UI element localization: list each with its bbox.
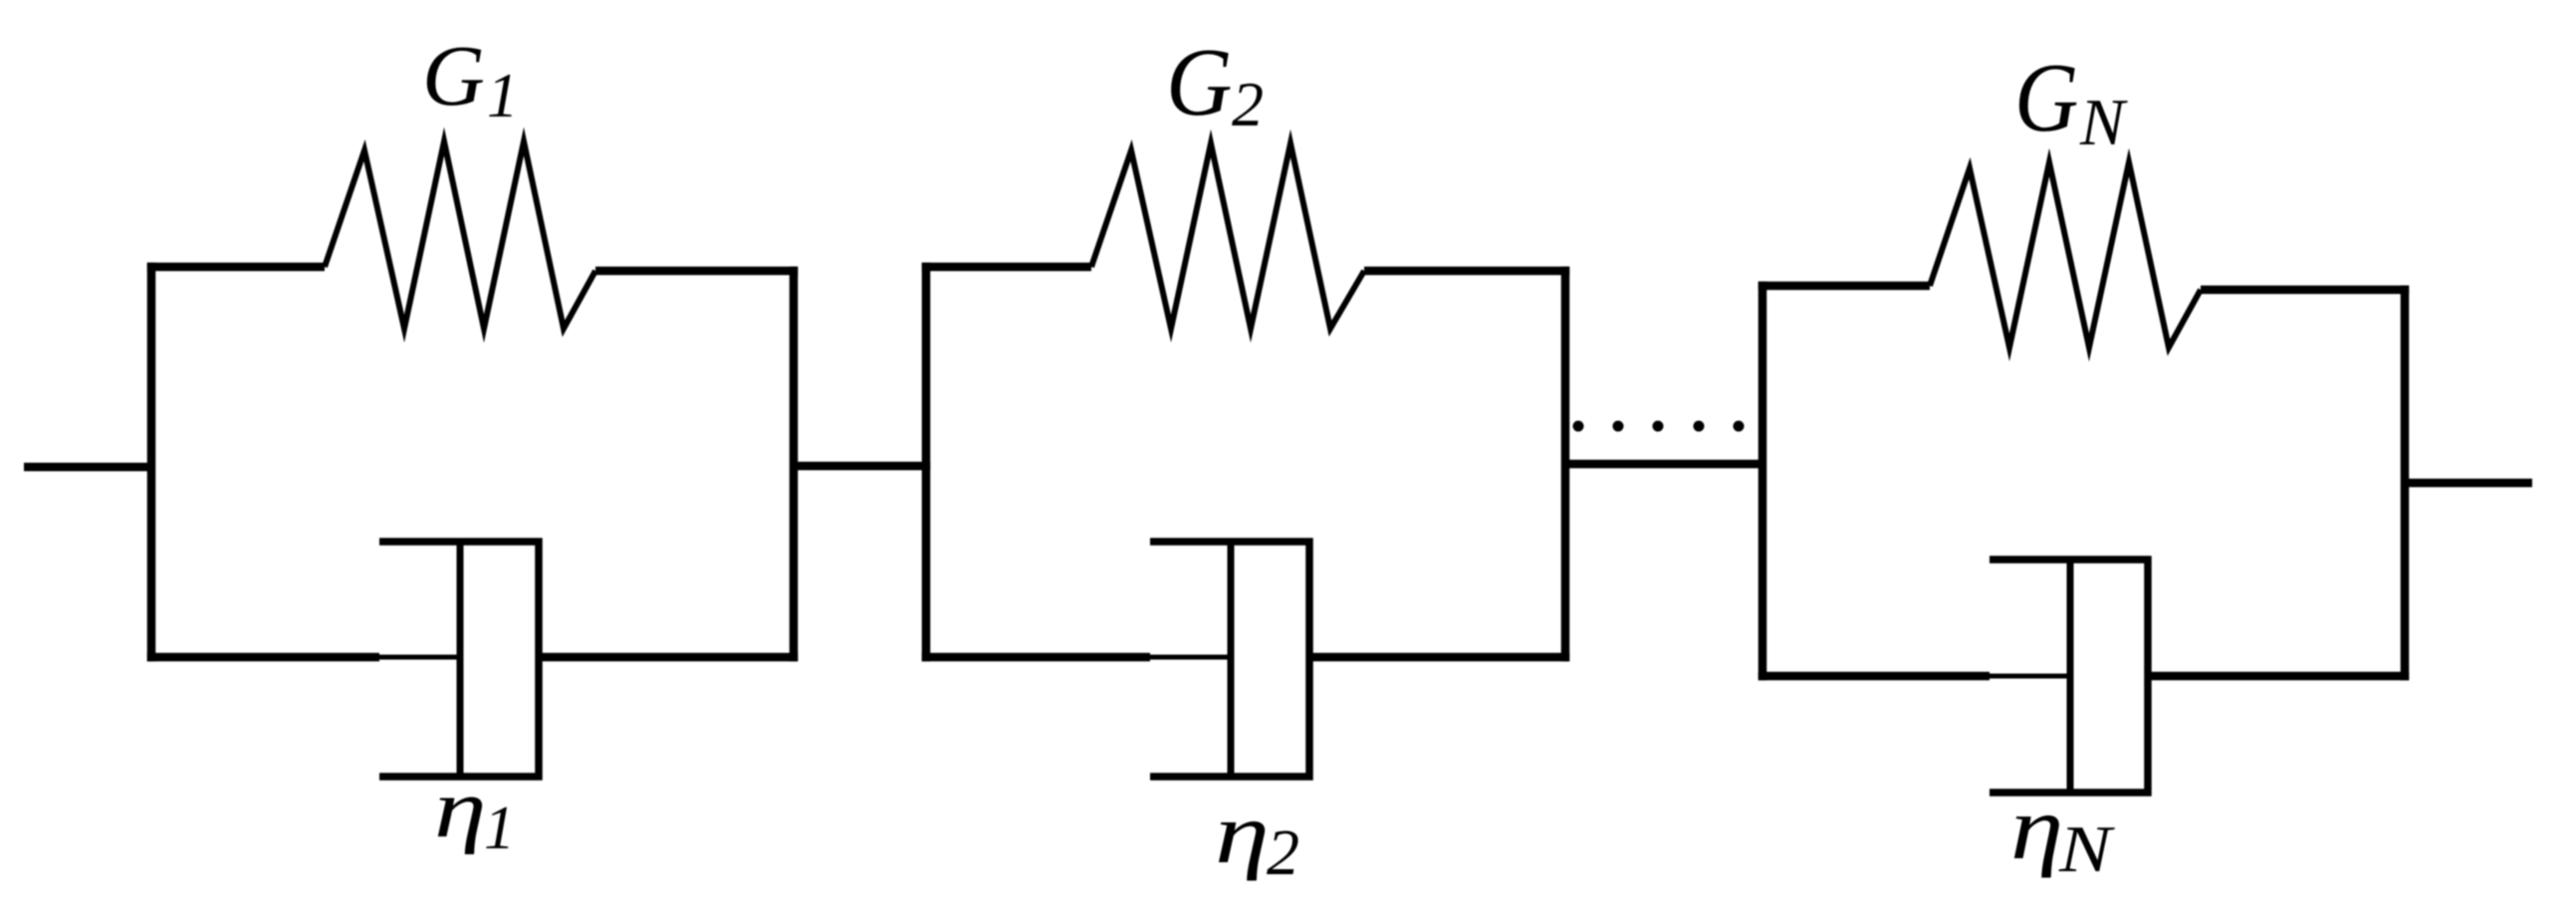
wire top-right branch element 1	[595, 267, 798, 276]
svg-text:2: 2	[1232, 69, 1264, 139]
wire bottom-right branch element N	[2148, 672, 2409, 681]
spring G1	[325, 141, 595, 329]
dashpot eta1 cylinder	[379, 542, 539, 777]
svg-text:N: N	[2058, 811, 2116, 885]
wire right output terminal	[2405, 479, 2532, 488]
wire series link element 2 to element 3	[1565, 460, 1762, 469]
wire top-left branch element 2	[922, 263, 1091, 272]
spring GN	[1930, 162, 2201, 347]
dashpot etaN cylinder	[1990, 560, 2148, 793]
node A (Kelvin element 1 left wall)	[147, 263, 156, 661]
svg-text:G: G	[422, 27, 485, 123]
wire series link element 1 to element 2	[794, 462, 930, 471]
wire top-right branch element N	[2201, 286, 2409, 295]
svg-text:G: G	[2014, 44, 2078, 152]
wire bottom-left branch element 2	[922, 653, 1150, 662]
wire top-right branch element 2	[1364, 267, 1569, 276]
node E (Kelvin element N left wall)	[1758, 282, 1767, 680]
node D (element 2 right wall)	[1561, 267, 1570, 661]
svg-text:η: η	[434, 762, 487, 854]
wire top-left branch element N	[1758, 282, 1930, 291]
dashpot eta2 piston plate	[1228, 542, 1235, 777]
dashpot piston rod 2	[1148, 655, 1231, 660]
spring G2	[1091, 143, 1364, 329]
svg-text:N: N	[2079, 86, 2128, 159]
wire top-left branch element 1	[147, 263, 325, 272]
node B (element 1 right wall)	[790, 267, 799, 661]
dashpot etaN piston plate	[2067, 560, 2074, 793]
wire bottom-right branch element 1	[539, 653, 798, 662]
dashpot piston rod N	[1988, 674, 2070, 679]
node F (element N right wall)	[2401, 286, 2410, 680]
svg-text:η: η	[1215, 785, 1270, 881]
svg-text:η: η	[2010, 778, 2063, 878]
svg-text:2: 2	[1267, 816, 1299, 889]
wire bottom-right branch element 2	[1309, 653, 1569, 662]
svg-text:G: G	[1166, 27, 1233, 135]
wire bottom-left branch element 1	[147, 653, 379, 662]
node C (Kelvin element 2 left wall)	[922, 263, 931, 661]
ellipsis dots continuation	[1573, 421, 1745, 432]
wire left input terminal	[24, 463, 155, 472]
dashpot eta2 cylinder	[1150, 542, 1309, 777]
svg-text:1: 1	[484, 795, 515, 862]
dashpot piston rod 1	[377, 655, 460, 660]
dashpot eta1 piston plate	[457, 542, 464, 777]
wire bottom-left branch element N	[1758, 672, 1990, 681]
svg-text:1: 1	[487, 61, 519, 130]
